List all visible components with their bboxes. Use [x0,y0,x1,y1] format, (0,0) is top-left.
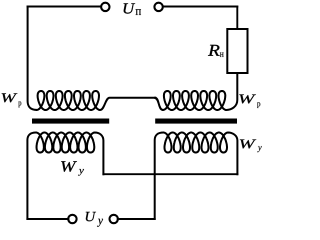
label Up supply voltage [124,3,141,14]
label Uy control voltage [86,212,103,227]
winding Wy left with leads down both sides [27,133,103,220]
label Rn load resistor [208,45,224,57]
resistor Rn body [227,29,247,73]
terminal right of Uy [110,215,118,223]
wire top-left horizontal [28,6,101,8]
terminal left of Uy [68,215,76,223]
wire bottom-right horizontal [118,218,155,220]
label Wp right winding [239,94,260,108]
label Wy right winding [240,139,262,152]
terminal left of Up [101,3,109,11]
wire right vertical to resistor [236,7,238,30]
winding Wp right with entry wire and lead up to resistor [155,74,237,111]
terminal right of Up [154,3,162,11]
core bar left [32,119,109,124]
winding Wp left with lead from top wire and exit to series wire [28,7,156,111]
label Wy left winding [61,161,84,175]
label Wp left winding [2,93,22,107]
wire connector between Wy outer leads [103,173,237,175]
core bar right [155,119,237,124]
wire bottom-left horizontal [27,218,68,220]
wire top-right horizontal [164,6,238,8]
winding Wy right, left lead crosses connector down to Uy [155,133,238,220]
